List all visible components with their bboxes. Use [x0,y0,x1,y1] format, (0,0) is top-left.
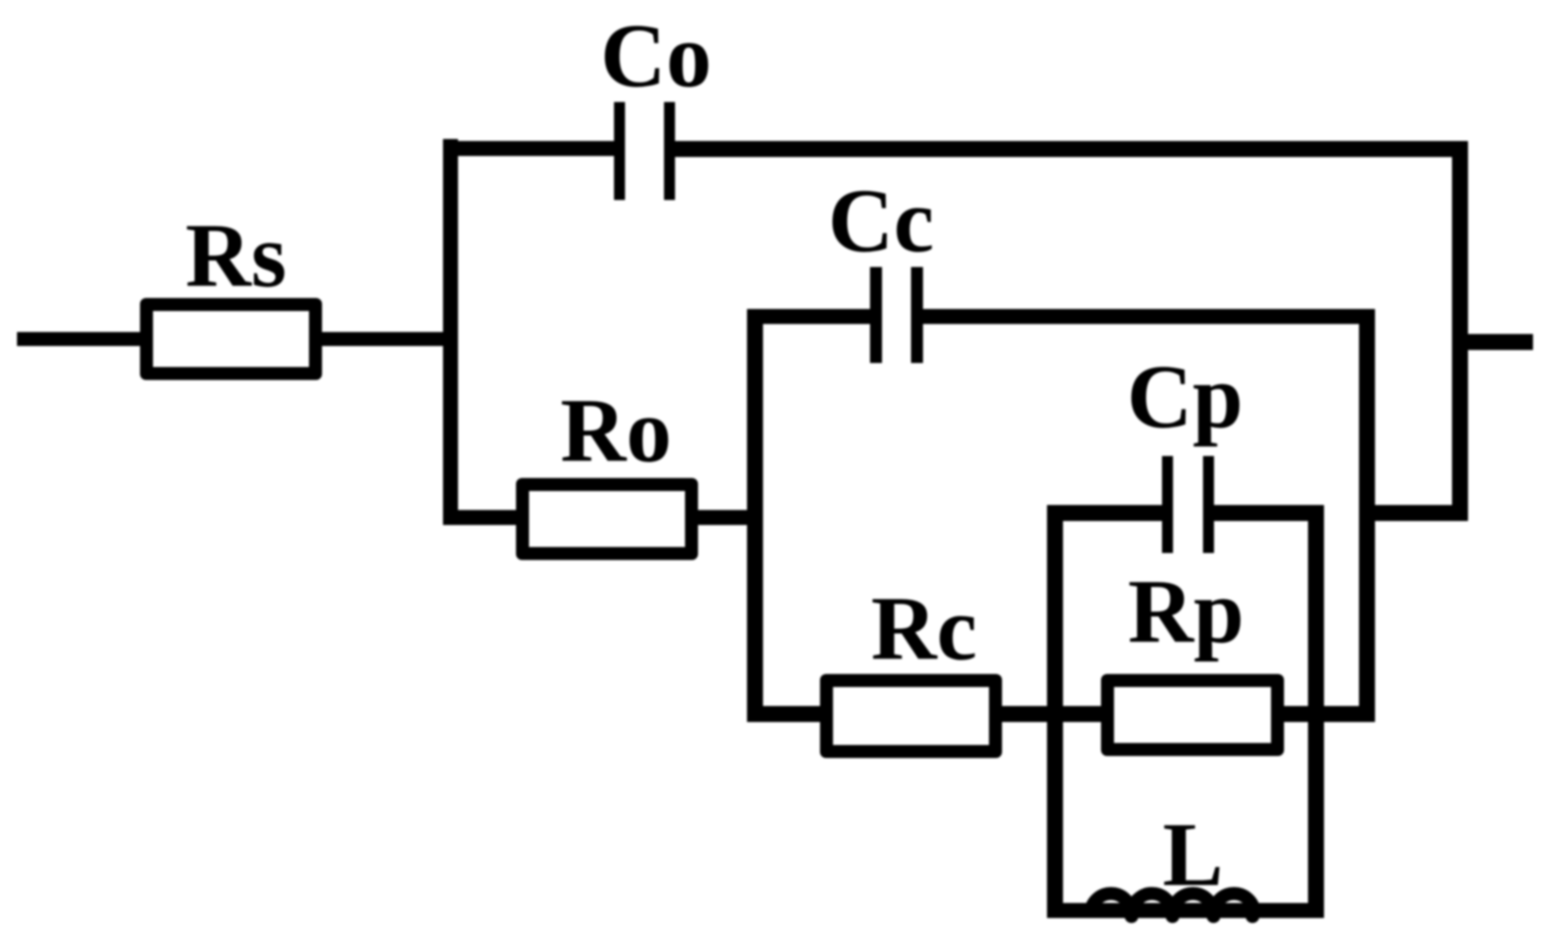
svg-text:Cp: Cp [1127,346,1243,447]
svg-text:Rp: Rp [1128,561,1244,662]
svg-text:L: L [1163,804,1224,905]
svg-text:Ro: Ro [560,380,671,481]
svg-text:Cc: Cc [828,170,934,271]
svg-text:Rc: Rc [871,578,977,679]
svg-text:Co: Co [600,5,711,106]
svg-text:Rs: Rs [185,205,286,306]
